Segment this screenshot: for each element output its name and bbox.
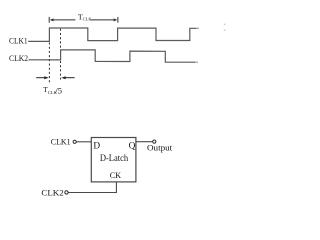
svg-text:CLK1: CLK1 <box>51 138 71 147</box>
svg-text:CLK1: CLK1 <box>9 36 28 45</box>
continuation dots at right edge <box>224 24 226 31</box>
waveform CLK1 <box>28 28 196 41</box>
dashed guide line at CLK2 rising edge (upper part) <box>60 29 62 50</box>
svg-text:D-Latch: D-Latch <box>100 153 129 163</box>
waveform CLK2 fading tail <box>195 61 198 63</box>
svg-text:CK: CK <box>110 170 122 180</box>
wire CLK2 to CK input <box>68 182 116 193</box>
terminal circle CLK1 <box>73 140 76 143</box>
svg-text:Q: Q <box>129 141 136 151</box>
delay arrows (pointing at dashed lines) <box>36 76 74 79</box>
terminal circle CLK2 <box>65 191 68 194</box>
wire Q to output terminal <box>136 141 153 143</box>
dimension arrow T_CLK (ticks, shafts, arrowheads) <box>49 17 118 23</box>
svg-text:D: D <box>93 142 100 152</box>
terminal circle Output <box>153 140 156 143</box>
wire CLK1 to D input <box>76 141 91 143</box>
waveform CLK1 fading tail <box>197 27 200 29</box>
waveform CLK2 <box>28 50 195 62</box>
dashed guide line at CLK1 rising edge <box>48 43 50 84</box>
svg-text:CLK2: CLK2 <box>41 188 63 198</box>
dashed guide line at CLK2 rising edge (lower part) <box>60 61 62 80</box>
D-latch box <box>91 138 136 182</box>
svg-text:CLK2: CLK2 <box>9 54 28 63</box>
svg-text:Output: Output <box>147 143 173 152</box>
